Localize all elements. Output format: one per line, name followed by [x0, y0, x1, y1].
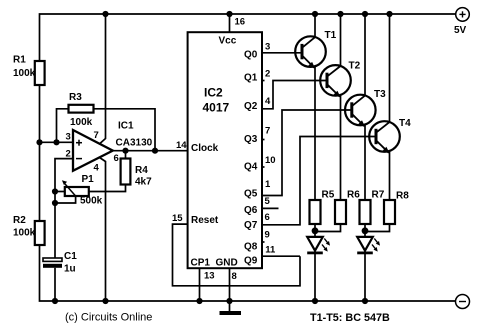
- wire top supply rail: [40, 14, 456, 61]
- wire +input: [40, 141, 74, 143]
- transistor Q T3: [345, 89, 386, 127]
- svg-text:1u: 1u: [64, 264, 76, 275]
- wire T4 emitter to R8: [389, 151, 391, 200]
- node R3 to +input: [53, 139, 59, 145]
- node wiper tie: [52, 200, 58, 206]
- node top rail T3: [362, 11, 368, 17]
- svg-text:CP1: CP1: [191, 258, 211, 269]
- svg-text:16: 16: [235, 17, 246, 28]
- wire Q1 nub: [262, 80, 265, 82]
- wire C1 to bottom rail: [54, 268, 56, 301]
- svg-text:3: 3: [265, 42, 270, 53]
- svg-text:Reset: Reset: [191, 215, 219, 226]
- svg-text:Q8: Q8: [244, 241, 258, 252]
- resistor R3: [69, 92, 94, 128]
- svg-text:IC1: IC1: [118, 121, 134, 132]
- wire R4 to P1: [89, 185, 126, 192]
- wire pin7 supply: [100, 14, 106, 144]
- svg-text:Q3: Q3: [244, 134, 258, 145]
- svg-text:(c) Circuits Online: (c) Circuits Online: [65, 312, 152, 324]
- IC U2 4017 box: [188, 32, 262, 268]
- wire Q4 nub: [262, 166, 265, 168]
- svg-text:6: 6: [114, 153, 119, 164]
- wire Q9 to reset loop: [262, 255, 300, 257]
- transistor Q T2: [320, 61, 360, 98]
- svg-text:R4: R4: [135, 165, 148, 176]
- node top rail Vcc: [226, 11, 232, 17]
- op-amp U1 triangle: [73, 130, 113, 171]
- wire Q0 to T1 base: [262, 52, 302, 54]
- svg-text:4: 4: [94, 163, 100, 174]
- transistor Q T4: [369, 118, 411, 154]
- svg-text:Q4: Q4: [244, 162, 258, 173]
- resistor R7: [360, 190, 385, 225]
- svg-text:4: 4: [265, 96, 271, 107]
- wire output to clock: [113, 150, 188, 152]
- wire T4 collector: [389, 14, 391, 122]
- op-amp minus sign: [76, 158, 82, 160]
- svg-text:14: 14: [176, 140, 187, 151]
- wire CP1 to rail: [199, 268, 201, 301]
- wire pin4 down: [100, 158, 106, 302]
- wire LED1 cathode to rail: [314, 253, 316, 301]
- resistor R8: [384, 191, 409, 225]
- wire GND to rail: [229, 268, 231, 311]
- node LED1 anode: [312, 227, 319, 234]
- wire Q6 stub: [262, 207, 279, 209]
- node top rail T1: [312, 11, 318, 17]
- LED D1: [307, 237, 330, 253]
- svg-text:Vcc: Vcc: [219, 36, 237, 47]
- svg-text:10: 10: [265, 155, 276, 166]
- node bottom rail LED2: [362, 298, 368, 304]
- wire R6 bottom to LED1 node: [315, 224, 341, 232]
- svg-text:R3: R3: [69, 92, 82, 103]
- svg-text:R1: R1: [13, 55, 26, 66]
- wire Q3 nub: [262, 139, 265, 141]
- svg-text:7: 7: [265, 126, 270, 137]
- svg-text:CA3130: CA3130: [116, 137, 153, 148]
- wire Q7 to T4 base: [262, 137, 376, 225]
- transistor Q T1: [295, 30, 336, 69]
- node top rail T2: [337, 11, 343, 17]
- ground bar: [220, 311, 242, 315]
- svg-text:4017: 4017: [203, 101, 230, 115]
- LED D2: [357, 237, 380, 253]
- svg-text:8: 8: [232, 271, 237, 282]
- wire R3 left to +input: [57, 109, 69, 143]
- wire output to R4: [125, 151, 127, 159]
- wire R3 right to output: [94, 109, 156, 151]
- svg-text:100k: 100k: [70, 117, 93, 128]
- node bottom rail CP1: [196, 298, 202, 304]
- resistor R4: [121, 159, 153, 188]
- wire T1 collector: [314, 14, 316, 37]
- svg-text:Q2: Q2: [244, 101, 258, 112]
- svg-text:11: 11: [265, 245, 276, 256]
- terminal minus: [456, 295, 470, 309]
- svg-text:R5: R5: [322, 190, 335, 201]
- wire R8 bottom to LED2 node: [365, 224, 390, 232]
- wire T1 emitter to R5: [314, 66, 316, 200]
- svg-text:Q6: Q6: [244, 205, 258, 216]
- svg-text:T3: T3: [374, 89, 386, 100]
- node top rail T4: [386, 11, 392, 17]
- svg-text:T4: T4: [399, 118, 411, 129]
- wire Vcc pin 16: [229, 14, 231, 32]
- svg-text:T1: T1: [325, 30, 337, 41]
- svg-text:Q0: Q0: [244, 50, 258, 61]
- svg-text:R7: R7: [372, 190, 385, 201]
- wire T2 collector: [340, 14, 342, 66]
- wire P1 wiper tie: [55, 196, 76, 203]
- wire Q8 stub: [262, 241, 265, 243]
- resistor R6: [335, 190, 360, 225]
- wire P1 left: [55, 191, 65, 193]
- resistor R2: [13, 215, 45, 245]
- node bottom rail C1: [52, 298, 58, 304]
- svg-text:R2: R2: [13, 215, 26, 226]
- wire LED2 cathode to rail: [364, 253, 366, 301]
- node LED2 anode: [362, 227, 369, 234]
- svg-text:6: 6: [265, 212, 270, 223]
- potentiometer P1: [62, 174, 103, 207]
- svg-text:T1-T5: BC 547B: T1-T5: BC 547B: [310, 312, 390, 324]
- node output R3 feedback: [152, 148, 158, 154]
- wire T2 emitter to R6: [340, 95, 342, 200]
- op-amp plus sign: [76, 140, 82, 146]
- svg-text:5: 5: [265, 196, 271, 207]
- capacitor C1: [43, 251, 77, 275]
- wire T3 collector: [364, 14, 366, 96]
- svg-text:GND: GND: [216, 258, 238, 269]
- wire R5 bottom: [314, 224, 316, 237]
- svg-text:C1: C1: [64, 251, 77, 262]
- svg-text:P1: P1: [82, 174, 95, 185]
- svg-text:Clock: Clock: [191, 143, 219, 154]
- svg-text:15: 15: [172, 213, 183, 224]
- svg-text:100k: 100k: [13, 68, 36, 79]
- wire bottom rail: [40, 245, 456, 301]
- node bottom rail GND: [226, 298, 232, 304]
- node top rail at x=105.5: [102, 11, 108, 17]
- wire R7 bottom: [364, 224, 366, 237]
- svg-text:T2: T2: [349, 61, 361, 72]
- terminal +5V: [454, 8, 469, 36]
- svg-text:100k: 100k: [13, 228, 36, 239]
- svg-text:R8: R8: [396, 191, 409, 202]
- node R1 R2 divider: [36, 139, 42, 145]
- wire T3 emitter to R7: [364, 124, 366, 200]
- svg-text:Q5: Q5: [244, 189, 258, 200]
- wire Reset loop: [173, 224, 301, 286]
- svg-text:500k: 500k: [80, 196, 103, 207]
- svg-text:1: 1: [265, 179, 271, 190]
- svg-text:R6: R6: [347, 190, 360, 201]
- svg-text:3: 3: [66, 132, 71, 143]
- node output R4: [122, 148, 128, 154]
- svg-text:Q9: Q9: [244, 255, 258, 266]
- node bottom rail pin4: [102, 298, 108, 304]
- svg-text:5V: 5V: [454, 25, 467, 36]
- wire -input: [55, 159, 73, 192]
- node bottom rail LED1: [312, 298, 318, 304]
- svg-text:2: 2: [265, 69, 270, 80]
- svg-text:Q1: Q1: [244, 73, 258, 84]
- svg-text:IC2: IC2: [204, 86, 223, 100]
- resistor R5: [310, 190, 335, 225]
- wire R1 bottom to +input node: [39, 85, 41, 221]
- svg-text:4k7: 4k7: [135, 177, 152, 188]
- wire Q5 to T3 base: [262, 110, 352, 196]
- svg-text:7: 7: [94, 130, 99, 141]
- node P1 left: [52, 188, 58, 194]
- svg-text:9: 9: [265, 229, 270, 240]
- resistor R1: [13, 55, 45, 86]
- svg-text:13: 13: [204, 271, 215, 282]
- wire node to C1: [54, 192, 56, 259]
- wire Q2 to T2 base: [262, 81, 327, 109]
- svg-text:Q7: Q7: [244, 220, 258, 231]
